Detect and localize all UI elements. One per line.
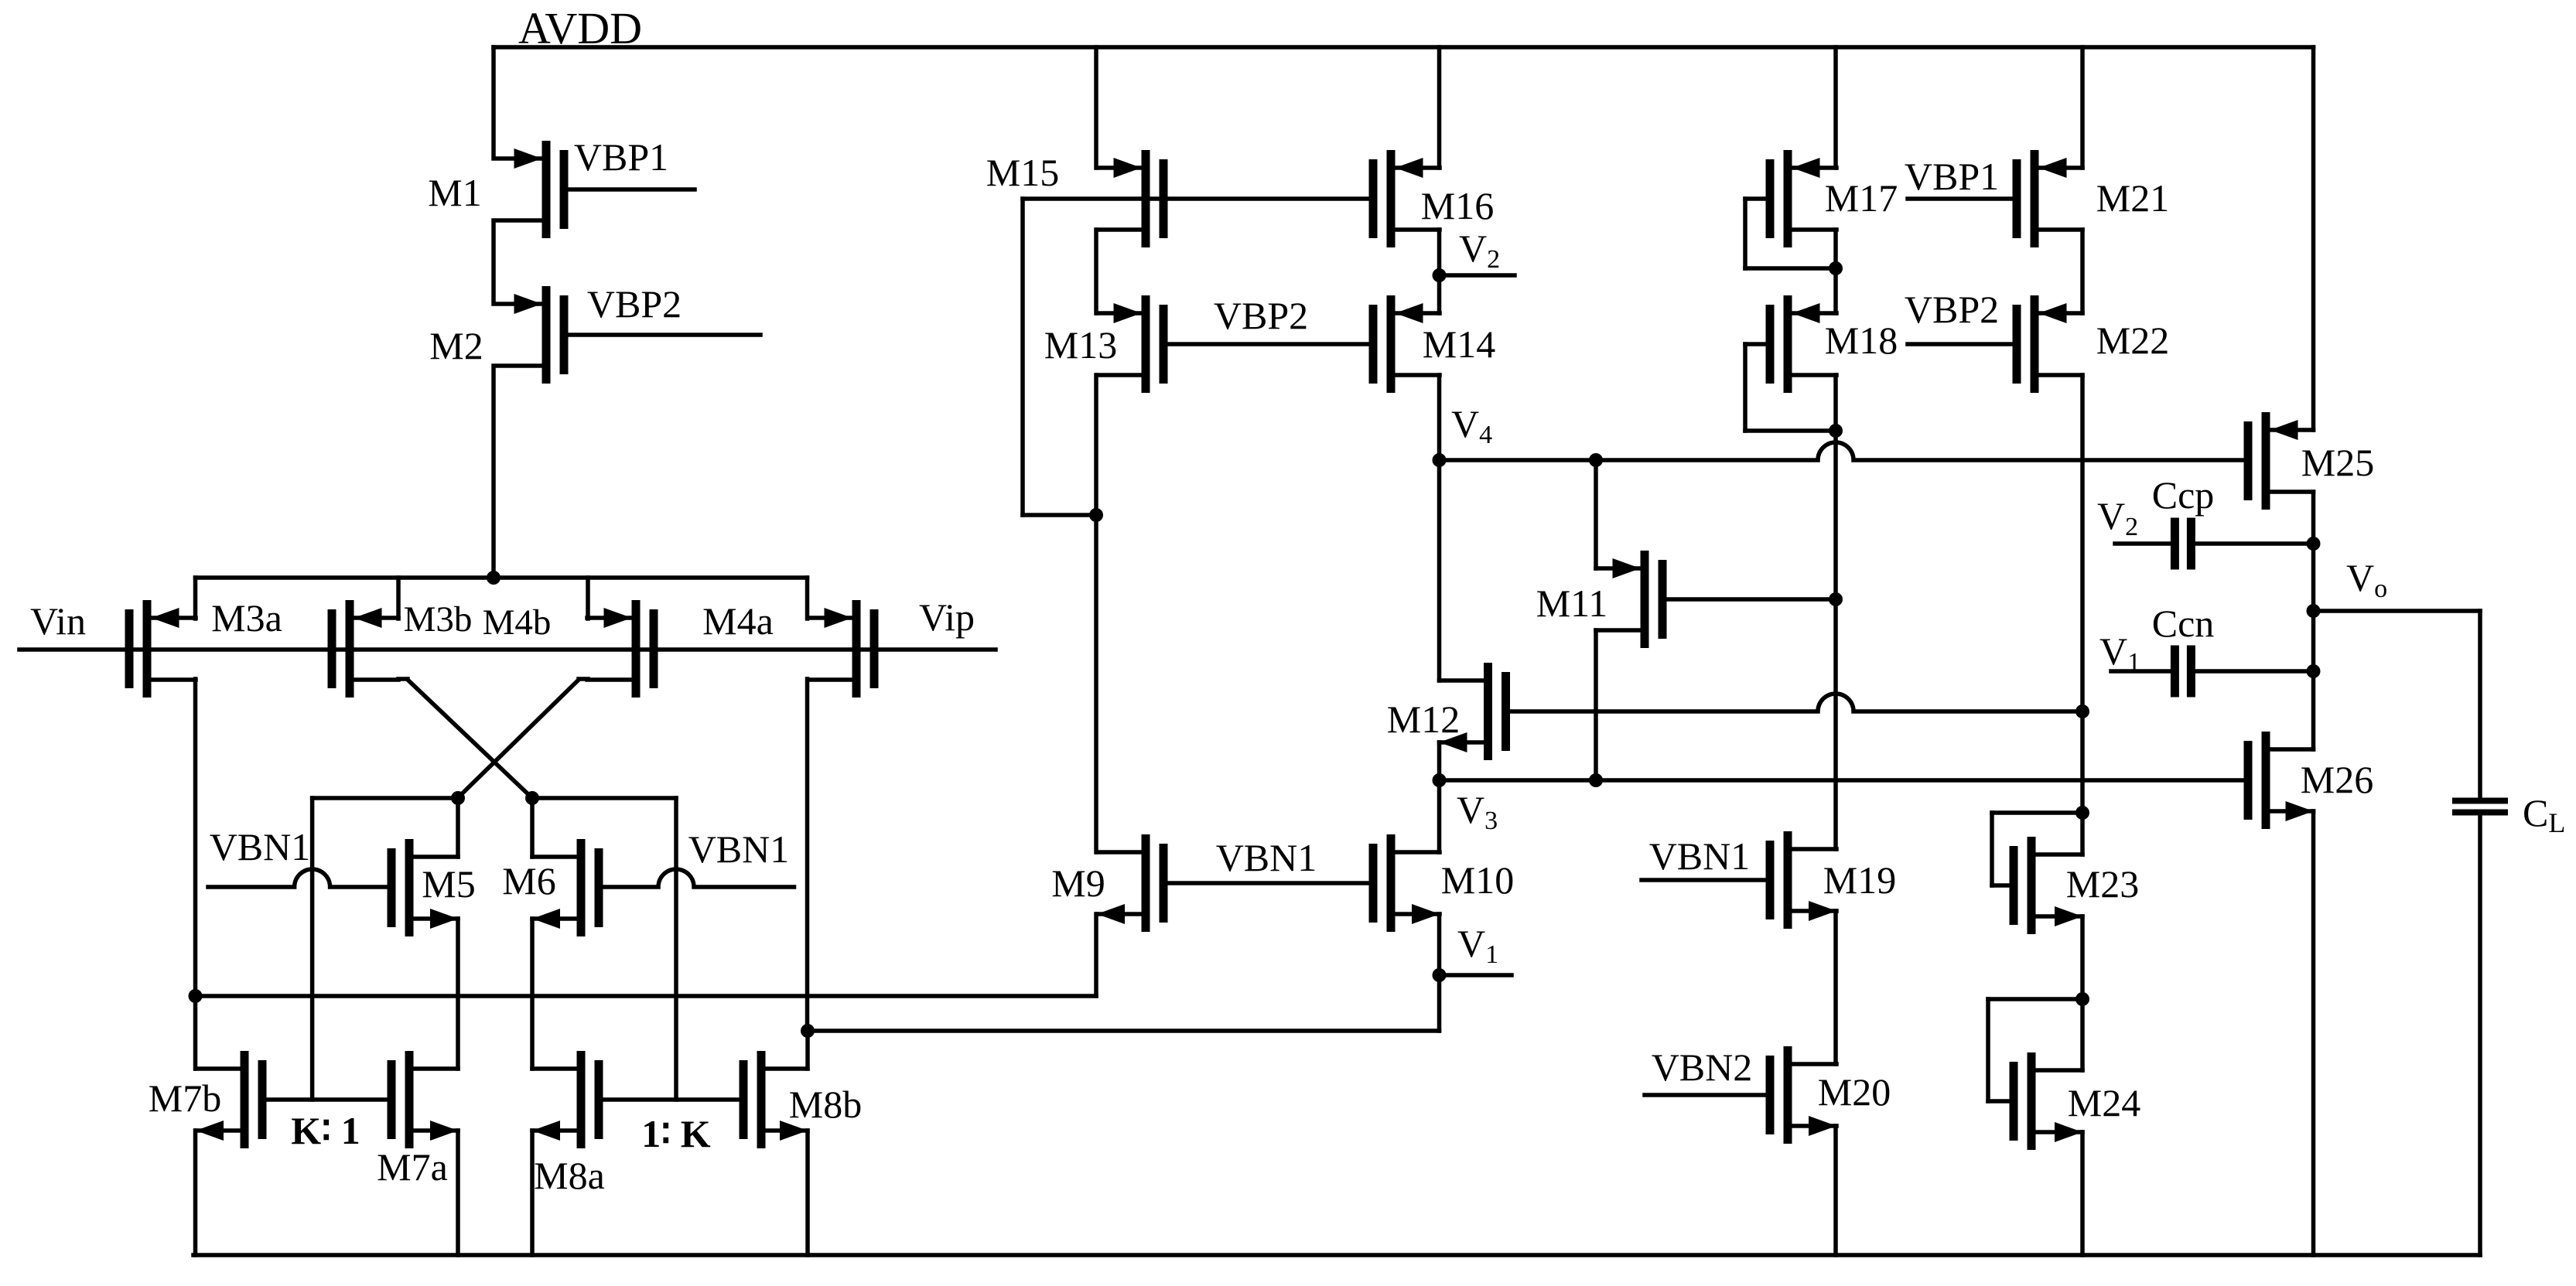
svg-text:VBN1: VBN1 xyxy=(1216,836,1317,879)
svg-text:V1: V1 xyxy=(1457,922,1498,969)
svg-text:M19: M19 xyxy=(1823,858,1896,902)
svg-text:M13: M13 xyxy=(1044,323,1117,367)
svg-text:CL: CL xyxy=(2523,791,2565,838)
svg-text:V1: V1 xyxy=(2099,629,2140,677)
svg-text:M18: M18 xyxy=(1825,319,1898,362)
svg-text:M4a: M4a xyxy=(702,599,774,643)
svg-text:V2: V2 xyxy=(2097,494,2138,541)
svg-text:Vo: Vo xyxy=(2346,556,2387,603)
svg-text:K∶ 1: K∶ 1 xyxy=(291,1109,360,1152)
svg-text:1∶ K: 1∶ K xyxy=(641,1112,711,1155)
svg-text:M12: M12 xyxy=(1387,698,1460,741)
svg-text:M21: M21 xyxy=(2096,176,2169,220)
svg-text:M14: M14 xyxy=(1423,322,1495,366)
svg-text:VBN1: VBN1 xyxy=(210,825,311,868)
svg-text:M15: M15 xyxy=(986,151,1059,194)
svg-text:M1: M1 xyxy=(428,171,481,214)
svg-text:VBN1: VBN1 xyxy=(1649,834,1751,878)
svg-text:M23: M23 xyxy=(2066,862,2139,906)
svg-text:M20: M20 xyxy=(1818,1070,1891,1114)
svg-text:M7a: M7a xyxy=(377,1145,448,1189)
svg-text:M5: M5 xyxy=(422,862,475,906)
svg-text:M6: M6 xyxy=(502,859,555,902)
svg-text:M11: M11 xyxy=(1536,582,1608,625)
svg-text:V4: V4 xyxy=(1451,402,1492,449)
svg-text:VBN1: VBN1 xyxy=(688,827,790,871)
svg-text:M16: M16 xyxy=(1421,184,1494,227)
svg-text:M2: M2 xyxy=(429,324,483,367)
svg-text:M8b: M8b xyxy=(789,1083,862,1126)
svg-text:M25: M25 xyxy=(2301,441,2374,484)
svg-text:AVDD: AVDD xyxy=(518,3,642,53)
svg-text:M3a: M3a xyxy=(211,596,282,640)
svg-text:M3b: M3b xyxy=(404,599,473,640)
svg-text:VBP2: VBP2 xyxy=(587,282,682,326)
svg-text:Vin: Vin xyxy=(30,599,86,643)
svg-text:V2: V2 xyxy=(1459,227,1500,274)
svg-text:Ccn: Ccn xyxy=(2152,602,2215,645)
svg-text:Ccp: Ccp xyxy=(2152,473,2215,517)
svg-text:M24: M24 xyxy=(2068,1081,2140,1124)
svg-text:M9: M9 xyxy=(1051,861,1105,905)
svg-text:M26: M26 xyxy=(2301,758,2373,801)
svg-text:VBP1: VBP1 xyxy=(1905,155,1999,198)
svg-text:V3: V3 xyxy=(1457,788,1498,835)
svg-text:M8a: M8a xyxy=(534,1154,605,1197)
svg-text:M17: M17 xyxy=(1825,176,1898,220)
svg-text:Vip: Vip xyxy=(919,595,975,639)
svg-text:M4b: M4b xyxy=(483,602,552,643)
svg-text:VBP1: VBP1 xyxy=(574,135,668,179)
svg-text:M10: M10 xyxy=(1441,858,1514,902)
svg-text:VBN2: VBN2 xyxy=(1652,1046,1753,1089)
svg-text:VBP2: VBP2 xyxy=(1214,294,1308,337)
svg-text:VBP2: VBP2 xyxy=(1905,288,1999,331)
svg-text:M7b: M7b xyxy=(149,1076,221,1120)
svg-text:M22: M22 xyxy=(2096,319,2169,362)
